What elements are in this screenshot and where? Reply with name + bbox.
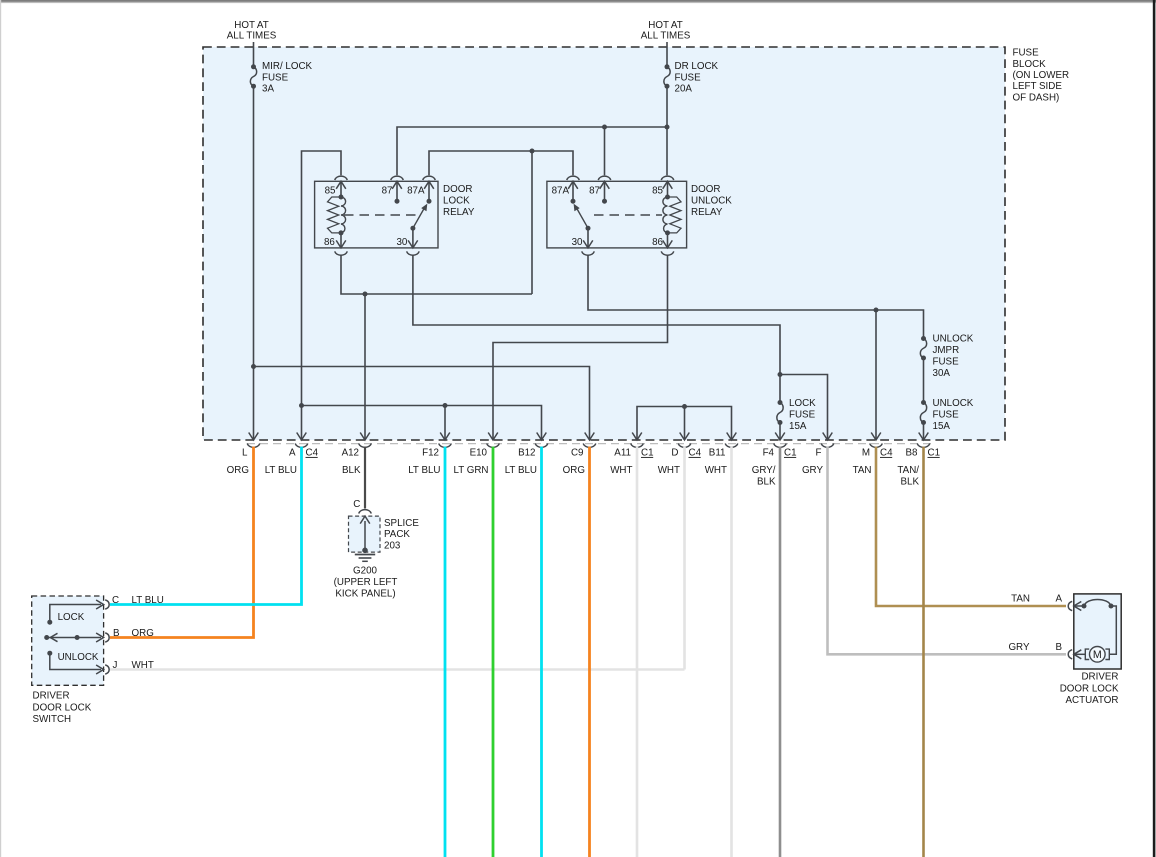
fuse LOCK 15A — [777, 400, 783, 425]
relay U2 pin 87A label — [552, 186, 570, 197]
relay U1 pin 86 label — [324, 237, 335, 248]
svg-text:L: L — [242, 448, 248, 459]
svg-text:DRIVER: DRIVER — [33, 691, 70, 702]
relay U2 label — [691, 184, 732, 218]
svg-text:KICK PANEL): KICK PANEL) — [335, 588, 395, 599]
fuse MIR/LOCK 3A — [250, 64, 256, 88]
relay U1 internal dashed link — [344, 214, 418, 216]
splice pack box — [349, 510, 381, 552]
label UNLOCK — [58, 652, 99, 663]
node pin C9 exit — [563, 433, 596, 477]
svg-text:C4: C4 — [689, 448, 702, 459]
node pin M exit — [853, 433, 893, 477]
relay U2 pin 85 label — [652, 186, 663, 197]
svg-text:85: 85 — [325, 186, 336, 197]
wire DR LOCK fuse down to junction — [666, 86, 668, 127]
label actuator pin A — [1011, 594, 1062, 605]
label DR LOCK fuse — [675, 61, 719, 94]
switch S1 common pole — [44, 633, 109, 642]
svg-text:FUSE: FUSE — [933, 357, 960, 368]
svg-text:15A: 15A — [933, 421, 951, 432]
relay U1 pin 87A label — [407, 186, 425, 197]
svg-text:ALL TIMES: ALL TIMES — [641, 30, 691, 41]
svg-text:D: D — [671, 448, 678, 459]
svg-text:UNLOCK: UNLOCK — [691, 195, 732, 206]
relay U2 internal dashed link — [594, 214, 662, 216]
wire relay U1 pin 87A to relay U2 pin 87A — [429, 151, 573, 175]
ground G200 — [355, 548, 375, 562]
svg-text:B8: B8 — [906, 448, 919, 459]
wire LT BLU B12 down — [540, 447, 543, 857]
svg-text:ORG: ORG — [132, 628, 154, 639]
svg-text:DOOR LOCK: DOOR LOCK — [1060, 683, 1119, 694]
svg-text:HOT AT: HOT AT — [234, 20, 268, 31]
svg-text:TAN: TAN — [853, 465, 872, 476]
label LOCK — [58, 612, 85, 623]
node junction GRY branch — [778, 372, 783, 377]
wire BLK A12 to splice — [364, 447, 366, 509]
label actuator pin B — [1008, 642, 1062, 653]
svg-text:FUSE: FUSE — [789, 410, 816, 421]
svg-text:LT BLU: LT BLU — [132, 595, 164, 606]
svg-text:RELAY: RELAY — [443, 207, 475, 218]
svg-text:86: 86 — [652, 237, 663, 248]
node junction WHT D branch — [682, 404, 687, 409]
svg-text:LOCK: LOCK — [789, 398, 816, 409]
svg-text:UNLOCK: UNLOCK — [58, 652, 99, 663]
page right border — [1153, 0, 1156, 857]
label LOCK fuse — [789, 398, 816, 432]
node HOT AT ALL TIMES (right feed) — [641, 20, 691, 42]
svg-text:MIR/ LOCK: MIR/ LOCK — [262, 61, 313, 72]
svg-text:ACTUATOR: ACTUATOR — [1066, 695, 1119, 706]
wire LT BLU A to switch C — [110, 447, 302, 605]
label splice connector C — [353, 499, 360, 510]
svg-text:C4: C4 — [306, 448, 319, 459]
svg-text:BLK: BLK — [342, 465, 361, 476]
svg-text:LT BLU: LT BLU — [505, 465, 537, 476]
wire junction 87A down to ground bus — [531, 151, 533, 294]
svg-text:A: A — [289, 448, 296, 459]
svg-text:B11: B11 — [709, 448, 726, 459]
wire MIR/LOCK fuse to node — [253, 86, 255, 366]
relay U2 armature switch — [574, 204, 591, 231]
wire WHT D down — [683, 447, 686, 670]
label G200 — [334, 566, 398, 600]
svg-text:C1: C1 — [641, 448, 654, 459]
wire TAN M to actuator A — [876, 447, 1066, 606]
wire ground to pin A12 — [364, 294, 366, 440]
svg-text:LT BLU: LT BLU — [408, 465, 440, 476]
svg-text:UNLOCK: UNLOCK — [933, 398, 974, 409]
svg-text:86: 86 — [324, 237, 335, 248]
wire TAN/BLK B8 down — [922, 447, 925, 857]
node pin E10 exit — [453, 433, 499, 477]
svg-text:M: M — [1093, 649, 1102, 661]
relay U2 DOOR UNLOCK RELAY box — [547, 181, 687, 248]
svg-text:TAN/: TAN/ — [897, 465, 919, 476]
page top border — [0, 0, 1156, 3]
svg-text:C1: C1 — [784, 448, 797, 459]
svg-text:LT GRN: LT GRN — [453, 465, 488, 476]
fuse UNLOCK JMPR 30A — [920, 336, 926, 361]
svg-text:DOOR: DOOR — [691, 184, 720, 195]
page left border — [0, 0, 1, 857]
node pin B11 exit — [705, 433, 738, 477]
svg-text:(ON LOWER: (ON LOWER — [1013, 70, 1070, 81]
wire LT GRN E10 down — [492, 447, 495, 857]
relay U1 pin 87 stub — [391, 176, 404, 204]
wire ground bus — [341, 255, 532, 295]
relay U1 pin 30 stub — [407, 228, 420, 255]
svg-text:C9: C9 — [571, 448, 584, 459]
wire relay U1 pin 87 to DR LOCK feed — [397, 127, 667, 175]
wire WHT from switch J to A11/D junction — [110, 668, 685, 671]
relay U1 pin 86 stub — [335, 233, 348, 255]
relay U2 coil — [663, 195, 681, 236]
svg-text:F4: F4 — [763, 448, 775, 459]
node pin F12 exit — [408, 433, 451, 477]
svg-text:OF DASH): OF DASH) — [1013, 92, 1060, 103]
node pin A exit — [265, 433, 319, 477]
svg-text:B12: B12 — [518, 448, 535, 459]
relay U1 pin 85 stub — [335, 176, 348, 197]
wire splice internal — [364, 521, 366, 550]
svg-text:J: J — [113, 660, 118, 671]
svg-text:BLOCK: BLOCK — [1013, 59, 1047, 70]
svg-text:ORG: ORG — [563, 465, 585, 476]
node pin F4 exit — [752, 433, 797, 488]
node junction 87A net — [530, 149, 535, 154]
svg-text:3A: 3A — [262, 84, 274, 95]
svg-text:WHT: WHT — [705, 465, 727, 476]
svg-text:RELAY: RELAY — [691, 207, 723, 218]
relay U1 DOOR LOCK RELAY box — [315, 181, 438, 248]
node junction at DR LOCK feed — [665, 125, 670, 130]
svg-text:FUSE: FUSE — [675, 72, 702, 83]
node junction TAN branch — [874, 308, 879, 313]
relay U2 pin 87 stub — [598, 176, 611, 204]
actuator pin A entry — [1068, 601, 1084, 610]
motor M — [1085, 647, 1109, 663]
svg-text:WHT: WHT — [132, 660, 154, 671]
node junction F12 branch — [443, 403, 448, 408]
svg-text:87A: 87A — [552, 186, 570, 197]
wire LT BLU bus — [302, 406, 542, 441]
node HOT AT ALL TIMES (left feed) — [227, 20, 277, 42]
label SPLICE PACK 203 — [384, 518, 419, 552]
svg-text:B: B — [1056, 642, 1063, 653]
relay U1 label — [443, 184, 475, 218]
svg-text:WHT: WHT — [610, 465, 632, 476]
svg-text:GRY: GRY — [1008, 642, 1030, 653]
relay U2 pin 86 label — [652, 237, 663, 248]
wire branch to pin F — [780, 375, 828, 441]
relay U2 pin 30 label — [572, 237, 583, 248]
node pin B12 exit — [505, 433, 548, 477]
switch S1 DRIVER DOOR LOCK SWITCH box — [32, 596, 104, 685]
svg-text:DOOR LOCK: DOOR LOCK — [33, 702, 92, 713]
label UNLOCK JMPR fuse — [933, 334, 974, 380]
fuse block box — [203, 47, 1005, 440]
svg-text:B: B — [113, 628, 120, 639]
svg-text:A11: A11 — [614, 448, 631, 459]
node pin A12 exit — [342, 433, 372, 477]
label switch pin B — [113, 628, 154, 639]
svg-text:30: 30 — [572, 237, 583, 248]
relay U2 pin 30 stub — [582, 228, 595, 255]
wire GRY F to actuator B — [828, 447, 1067, 655]
wire LOCK fuse to pin F4 — [779, 423, 781, 441]
node pin A11 exit — [610, 433, 653, 477]
switch S1 LOCK contact — [47, 600, 109, 625]
svg-text:87A: 87A — [407, 186, 425, 197]
svg-text:(UPPER LEFT: (UPPER LEFT — [334, 577, 398, 588]
svg-text:87: 87 — [589, 186, 600, 197]
wire ORG C9 down — [588, 447, 591, 857]
node junction 87 net — [602, 125, 607, 130]
svg-text:DOOR: DOOR — [443, 184, 472, 195]
svg-text:LOCK: LOCK — [443, 195, 470, 206]
relay U2 pin 87 label — [589, 186, 600, 197]
svg-text:E10: E10 — [470, 448, 488, 459]
wire node to pin L — [253, 367, 255, 441]
svg-text:F12: F12 — [422, 448, 439, 459]
wire UNLOCK fuse to pin B8 — [923, 423, 925, 441]
wire hot feed to MIR/LOCK fuse — [253, 42, 255, 67]
svg-text:LOCK: LOCK — [58, 612, 85, 623]
switch S1 UNLOCK contact — [47, 651, 109, 674]
relay U2 pin 85 stub — [661, 176, 674, 197]
svg-text:SPLICE: SPLICE — [384, 518, 419, 529]
wire ORG node to pin C9 — [254, 367, 590, 441]
node junction ORG feed — [251, 364, 256, 369]
svg-text:JMPR: JMPR — [933, 345, 960, 356]
fuse block label — [1013, 48, 1070, 104]
wire WHT B11 down — [730, 447, 733, 857]
svg-text:LT BLU: LT BLU — [265, 465, 297, 476]
wire junction to relay U2 pin 85 — [666, 127, 668, 175]
svg-text:87: 87 — [382, 186, 393, 197]
svg-text:BLK: BLK — [900, 477, 919, 488]
relay U1 pin 87A stub — [423, 176, 436, 204]
relay U2 pin 87A stub — [567, 176, 580, 204]
relay U1 pin 85 label — [325, 186, 336, 197]
label DRIVER DOOR LOCK ACTUATOR — [1060, 672, 1119, 707]
relay U1 pin 87 label — [382, 186, 393, 197]
svg-text:UNLOCK: UNLOCK — [933, 334, 974, 345]
svg-text:C: C — [353, 499, 360, 510]
relay U1 coil — [328, 195, 346, 236]
wire hot feed to DR LOCK fuse — [666, 42, 668, 67]
node pin F exit — [802, 433, 834, 477]
node pin L exit — [227, 433, 260, 477]
svg-text:ORG: ORG — [227, 465, 249, 476]
svg-text:PACK: PACK — [384, 529, 410, 540]
svg-text:WHT: WHT — [658, 465, 680, 476]
node pin B8 exit — [897, 433, 940, 488]
wire relay U2 pin 86 to pin E10 — [493, 255, 668, 441]
svg-text:A12: A12 — [342, 448, 359, 459]
wire junction down to relay U2 pin 87 — [604, 127, 606, 175]
svg-text:FUSE: FUSE — [1013, 48, 1040, 59]
relay U1 pin 30 label — [396, 237, 407, 248]
svg-text:ALL TIMES: ALL TIMES — [227, 30, 277, 41]
svg-text:20A: 20A — [675, 84, 693, 95]
svg-text:C4: C4 — [880, 448, 893, 459]
svg-text:BLK: BLK — [757, 477, 776, 488]
wire relay U1 pin 85 to pin A (LT BLU net) — [302, 151, 342, 440]
wire branch to pin M — [875, 310, 877, 440]
svg-text:M: M — [862, 448, 870, 459]
svg-text:LEFT SIDE: LEFT SIDE — [1013, 81, 1063, 92]
wire between unlock fuses — [923, 358, 925, 403]
svg-text:85: 85 — [652, 186, 663, 197]
wire relay U1 pin 30 to lock fuse — [413, 255, 780, 403]
wire WHT A11 down — [636, 447, 639, 857]
wire F12 branch — [444, 406, 446, 441]
node junction ground to A12 — [363, 292, 368, 297]
wire GRY/BLK F4 down — [779, 447, 782, 857]
fuse UNLOCK 15A — [920, 400, 926, 425]
svg-text:F: F — [816, 448, 822, 459]
label switch pin J — [113, 660, 154, 671]
relay U2 pin 86 stub — [661, 233, 674, 255]
svg-text:A: A — [1056, 594, 1063, 605]
label switch pin C — [112, 595, 164, 606]
svg-text:30A: 30A — [933, 368, 951, 379]
svg-text:DRIVER: DRIVER — [1081, 672, 1118, 683]
svg-text:C: C — [112, 595, 119, 606]
wire relay U2 pin 30 to unlock fuses — [588, 255, 924, 339]
svg-text:G200: G200 — [353, 566, 378, 577]
wire WHT jumper bus A11-D-B11 — [637, 407, 732, 441]
svg-text:30: 30 — [396, 237, 407, 248]
svg-text:GRY/: GRY/ — [752, 465, 776, 476]
svg-text:HOT AT: HOT AT — [648, 20, 682, 31]
relay U1 armature switch — [410, 204, 427, 231]
svg-text:FUSE: FUSE — [262, 72, 289, 83]
label DRIVER DOOR LOCK SWITCH — [33, 691, 92, 726]
actuator contact arc — [1082, 599, 1117, 654]
label UNLOCK fuse — [933, 398, 974, 432]
svg-text:FUSE: FUSE — [933, 410, 960, 421]
svg-text:DR LOCK: DR LOCK — [675, 61, 719, 72]
connector row dashed strip — [247, 443, 931, 445]
svg-text:SWITCH: SWITCH — [33, 714, 72, 725]
wire WHT D branch — [684, 407, 686, 441]
svg-text:TAN: TAN — [1011, 594, 1030, 605]
svg-text:GRY: GRY — [802, 465, 824, 476]
svg-text:203: 203 — [384, 541, 401, 552]
fuse DR LOCK 20A — [664, 64, 670, 88]
actuator pin B entry — [1068, 650, 1085, 659]
node pin D exit — [658, 433, 702, 477]
wire LT BLU F12 down — [444, 447, 447, 857]
actuator M1 DRIVER DOOR LOCK ACTUATOR box — [1074, 594, 1121, 669]
svg-text:15A: 15A — [789, 421, 807, 432]
wire ORG L to switch B — [110, 447, 254, 638]
svg-text:C1: C1 — [928, 448, 941, 459]
node junction LT BLU bus — [299, 403, 304, 408]
label MIR/LOCK fuse — [262, 61, 313, 94]
